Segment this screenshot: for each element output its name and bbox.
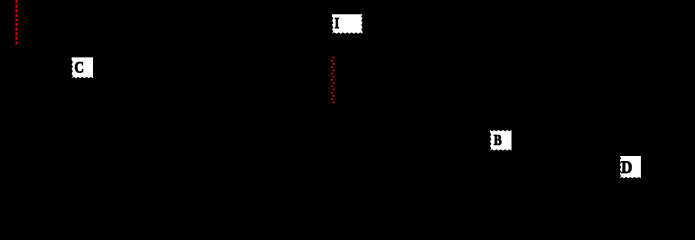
- label box D: [620, 156, 641, 178]
- label box I: [332, 14, 363, 34]
- label box C: [72, 57, 93, 78]
- red dashed guide line (top left): [15, 0, 17, 45]
- label box B: [490, 130, 512, 151]
- red dotted guide line (center): [331, 57, 334, 103]
